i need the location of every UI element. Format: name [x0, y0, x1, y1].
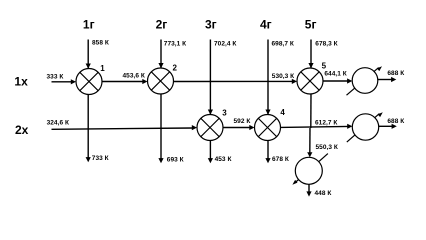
svg-text:4г: 4г [260, 18, 272, 32]
arrowhead into HX4 left [249, 125, 254, 130]
wire 2x HX4 to heater B [281, 126, 349, 127]
arrowhead end of 4g [265, 158, 270, 163]
heater A diagonal arrow line [347, 68, 379, 96]
arrowhead into HX4 top [265, 110, 270, 115]
arrowhead heater B diagonal tip [378, 112, 383, 117]
heat exchanger HX5 circle [297, 68, 323, 94]
svg-text:678 К: 678 К [272, 156, 289, 163]
heat exchanger HX1 circle [76, 69, 102, 95]
svg-text:550,3 К: 550,3 К [316, 144, 338, 151]
heater B diagonal arrow line [347, 114, 380, 143]
svg-text:612,7 К: 612,7 К [315, 119, 337, 126]
wire hot stream 2g vertical upper [160, 40, 162, 68]
wire 1x HX1 to HX2 [102, 81, 144, 83]
arrowhead end of 3g [208, 158, 213, 163]
svg-text:3г: 3г [205, 18, 217, 32]
arrowhead end of heater A outlet [391, 77, 396, 82]
arrowhead into heater A left [347, 78, 352, 83]
svg-text:2: 2 [173, 63, 178, 72]
wire hot stream 4g vertical lower [267, 141, 269, 162]
svg-text:858 К: 858 К [92, 40, 109, 47]
arrowhead into cooler top [307, 152, 312, 157]
wire hot stream 1g vertical lower [87, 95, 89, 161]
arrowhead into HX5 top [308, 63, 313, 68]
svg-text:592 К: 592 К [234, 118, 251, 125]
wire hot stream 2g vertical lower [160, 94, 162, 161]
heat exchanger HX2 circle [148, 68, 174, 94]
wire hot stream 3g vertical lower [209, 141, 211, 162]
svg-text:448 К: 448 К [315, 190, 332, 197]
cooler C circle [295, 157, 322, 184]
arrowhead cooler C diagonal tip [292, 180, 297, 185]
arrowhead into HX1 top [86, 63, 91, 68]
arrowhead into HX5 left [292, 79, 297, 84]
svg-text:693 К: 693 К [167, 156, 184, 163]
arrowhead into HX3 top [208, 110, 213, 115]
svg-text:3: 3 [222, 109, 227, 118]
svg-text:5: 5 [322, 61, 327, 70]
svg-text:453,6 К: 453,6 К [123, 73, 145, 80]
svg-text:688 К: 688 К [387, 70, 404, 77]
wire 1x HX5 to heater A [323, 80, 349, 82]
svg-text:333 К: 333 К [47, 74, 64, 81]
svg-text:678,3 К: 678,3 К [315, 40, 337, 47]
arrowhead into HX3 left [192, 125, 197, 130]
svg-text:1: 1 [100, 64, 105, 73]
arrowhead end of heater B outlet [392, 124, 397, 129]
wire hot stream 5g vertical middle [310, 94, 312, 128]
heat exchanger HX3 circle [197, 115, 223, 141]
wire hot stream 1g vertical upper [87, 40, 89, 69]
wire 1x HX2 to HX5 [174, 80, 294, 82]
wire cold stream 2x inlet [52, 128, 194, 129]
arrowhead end of cooler outlet [306, 191, 311, 196]
arrowhead into HX2 left [142, 79, 147, 84]
arrowhead end of 2g [158, 158, 163, 163]
svg-text:1г: 1г [83, 18, 95, 32]
arrowhead into heater B left [347, 124, 352, 129]
svg-text:5г: 5г [305, 18, 317, 32]
heat exchanger HX4 circle [255, 115, 281, 141]
HX2 cross [151, 72, 169, 90]
svg-text:530,3 К: 530,3 К [272, 73, 294, 80]
svg-text:1х: 1х [14, 75, 28, 89]
wire hot stream 5g vertical upper [310, 40, 312, 68]
wire hot stream 5g vertical to cooler [309, 128, 311, 154]
HX1 cross [80, 72, 98, 90]
svg-text:688 К: 688 К [387, 118, 404, 125]
arrowhead end of 1g [86, 157, 91, 162]
heater B circle [352, 114, 378, 140]
HX5 cross [301, 72, 319, 90]
wire hot stream 3g vertical upper [209, 40, 211, 115]
wire hot stream 4g vertical upper [267, 40, 269, 115]
svg-text:4: 4 [280, 108, 285, 117]
wire heater A outlet [378, 79, 393, 81]
arrowhead into HX1 left [71, 79, 76, 84]
svg-text:2г: 2г [156, 18, 168, 32]
svg-text:453 К: 453 К [215, 156, 232, 163]
svg-text:698,7 К: 698,7 К [272, 40, 294, 47]
arrowhead into HX2 top [158, 63, 163, 68]
arrowhead heater A diagonal tip [377, 66, 382, 71]
cooler C diagonal arrow line [296, 154, 328, 182]
HX3 cross [201, 118, 219, 136]
wire 2x HX3 to HX4 [223, 127, 251, 129]
svg-text:733 К: 733 К [92, 155, 109, 162]
wire cooler outlet vertical [308, 184, 310, 194]
svg-text:644,1 К: 644,1 К [324, 71, 346, 78]
wire cold stream 1x inlet [52, 81, 73, 83]
svg-text:2х: 2х [15, 123, 29, 137]
wire heater B outlet [379, 125, 393, 127]
svg-text:702,4 К: 702,4 К [214, 41, 236, 48]
svg-text:324,6 К: 324,6 К [47, 120, 69, 127]
HX4 cross [258, 118, 276, 136]
svg-text:773,1 К: 773,1 К [164, 41, 186, 48]
heater A circle [352, 68, 378, 94]
